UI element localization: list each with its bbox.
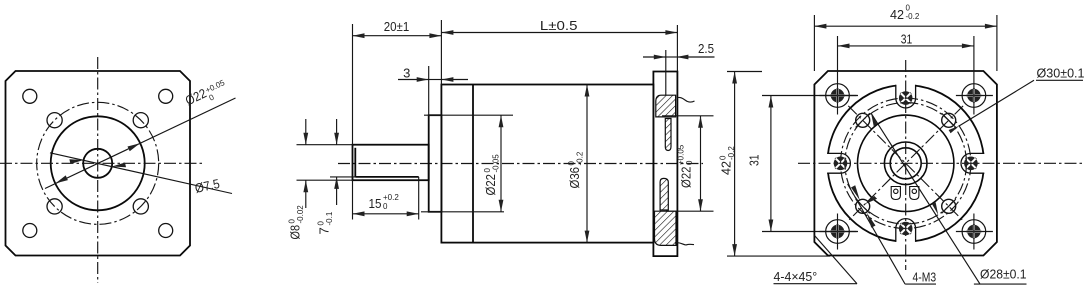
svg-text:-0.2: -0.2 (906, 12, 920, 21)
svg-text:2.5: 2.5 (698, 41, 714, 56)
svg-text:42: 42 (719, 161, 734, 175)
svg-text:-0.2: -0.2 (727, 146, 736, 160)
svg-text:Ø30±0.1: Ø30±0.1 (1037, 66, 1085, 81)
svg-text:Ø36: Ø36 (567, 167, 582, 189)
svg-text:0: 0 (685, 160, 694, 165)
svg-text:0: 0 (383, 202, 388, 211)
svg-text:3: 3 (403, 66, 410, 81)
svg-text:Ø8: Ø8 (288, 225, 303, 240)
svg-text:+0.2: +0.2 (383, 193, 399, 202)
svg-text:-0.2: -0.2 (576, 151, 585, 165)
svg-text:15: 15 (369, 196, 382, 211)
svg-text:Ø28±0.1: Ø28±0.1 (980, 267, 1027, 282)
svg-text:20±1: 20±1 (384, 19, 410, 34)
svg-text:31: 31 (747, 155, 762, 167)
svg-text:31: 31 (901, 32, 913, 47)
svg-text:-0.05: -0.05 (492, 154, 501, 173)
svg-text:Ø22: Ø22 (483, 174, 498, 196)
svg-text:4-M3: 4-M3 (913, 270, 937, 285)
svg-text:-0.02: -0.02 (296, 205, 305, 224)
svg-text:L±0.5: L±0.5 (540, 18, 578, 33)
svg-text:4-4×45°: 4-4×45° (774, 269, 818, 284)
svg-text:-0.1: -0.1 (325, 211, 334, 225)
svg-text:Ø22: Ø22 (679, 167, 694, 189)
svg-text:7: 7 (317, 227, 332, 234)
svg-text:42: 42 (890, 7, 904, 22)
